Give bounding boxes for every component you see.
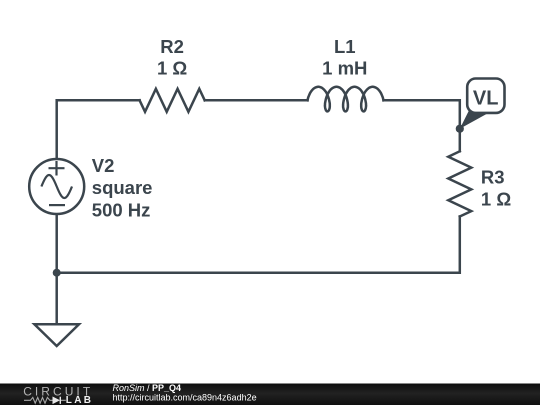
svg-text:VL: VL xyxy=(473,88,499,110)
resistor R3 xyxy=(448,151,471,216)
flag VL tail xyxy=(460,108,489,129)
resistor R2 xyxy=(140,89,205,112)
svg-text:http://circuitlab.com/ca89n4z6: http://circuitlab.com/ca89n4z6adh2e xyxy=(113,392,257,402)
svg-text:1 Ω: 1 Ω xyxy=(157,58,187,79)
svg-text:500 Hz: 500 Hz xyxy=(92,199,151,220)
inductor L1 xyxy=(308,87,384,112)
ground xyxy=(34,324,79,346)
wire R2 to L1 xyxy=(205,99,308,102)
wire R3 bottom to bottom rail xyxy=(57,217,460,273)
V2 minus sign xyxy=(49,204,65,206)
svg-text:square: square xyxy=(92,177,153,198)
wire bottom node to V2 bottom xyxy=(55,215,58,273)
V2 sine symbol xyxy=(41,175,72,198)
node junction at bottom rail xyxy=(53,269,61,277)
svg-text:R3: R3 xyxy=(481,166,505,187)
wire top-left from V2 top to R2 xyxy=(57,100,140,158)
flag VL box xyxy=(467,79,504,113)
wire bottom node to ground xyxy=(55,273,58,325)
svg-text:V2: V2 xyxy=(92,155,115,176)
logo schematic squiggle: wire+resistor+diode xyxy=(24,397,66,404)
voltage source V2 circle xyxy=(29,159,84,214)
svg-text:1 Ω: 1 Ω xyxy=(481,188,511,209)
wire L1 to top-right corner down to R3 xyxy=(384,100,460,151)
node junction at VL xyxy=(456,125,464,133)
svg-text:R2: R2 xyxy=(160,36,184,57)
svg-text:L1: L1 xyxy=(334,36,356,57)
V2 plus sign xyxy=(49,161,65,176)
svg-text:1 mH: 1 mH xyxy=(322,58,367,79)
svg-text:LAB: LAB xyxy=(66,395,93,405)
logo diode triangle xyxy=(53,397,61,405)
